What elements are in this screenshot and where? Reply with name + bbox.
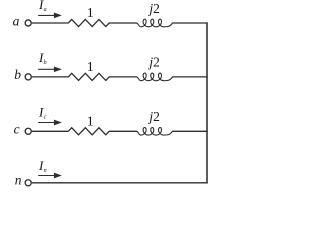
current arrow Ia [38,13,62,19]
inductor j2 (phase a) [136,19,172,27]
current arrow In [38,173,62,179]
current arrow Ib [38,66,62,72]
terminal n [25,180,31,186]
wire [32,130,69,132]
current arrow Ic [38,120,62,126]
svg-text:j2: j2 [147,55,160,70]
terminal b [25,74,31,80]
svg-text:Ia: Ia [38,0,47,13]
wire [32,76,69,78]
svg-text:In: In [38,158,47,174]
svg-text:j2: j2 [147,109,160,124]
svg-text:b: b [14,67,21,82]
svg-text:1: 1 [87,115,94,130]
resistor 1 (phase b) [68,73,109,80]
resistor 1 (phase a) [68,19,109,26]
wire [172,130,208,132]
svg-text:1: 1 [87,6,94,21]
wire [32,22,69,24]
svg-text:j2: j2 [147,1,160,16]
wire [109,130,137,132]
svg-text:n: n [15,172,22,187]
svg-text:1: 1 [87,60,94,75]
wire neutral [32,182,208,184]
terminal a [25,20,31,26]
svg-text:Ic: Ic [38,104,47,120]
svg-text:c: c [14,122,20,137]
wire [109,76,137,78]
wire [172,76,208,78]
wire vertical bus [206,22,208,183]
svg-text:a: a [13,13,20,28]
inductor j2 (phase b) [136,73,172,81]
terminal c [25,128,31,134]
resistor 1 (phase c) [68,128,109,135]
inductor j2 (phase c) [136,128,172,136]
wire [172,22,208,24]
wire [109,22,137,24]
svg-text:Ib: Ib [38,50,47,66]
